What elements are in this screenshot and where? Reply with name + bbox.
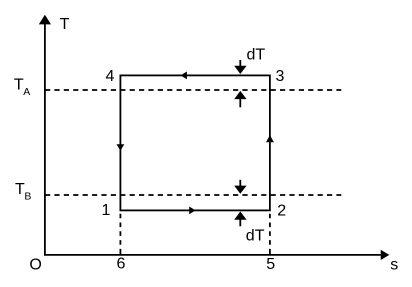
- process arrow 1 to 2 (bottom edge, rightward): [189, 207, 195, 215]
- T axis: [39, 15, 51, 256]
- process arrow 4 to 1 (left edge, downward): [117, 144, 125, 151]
- svg-text:1: 1: [102, 202, 111, 219]
- svg-text:2: 2: [277, 203, 286, 220]
- svg-text:O: O: [29, 257, 41, 274]
- svg-text:T: T: [60, 16, 70, 33]
- isotherm T_A dashed line: [45, 89, 341, 91]
- s axis: [44, 250, 389, 260]
- dashed drop line from state 1 to s=6: [119, 211, 121, 255]
- isotherm T_B dashed line: [45, 194, 341, 196]
- svg-text:dT: dT: [246, 227, 265, 244]
- dT up arrow onto bottom edge: [234, 212, 246, 227]
- svg-text:5: 5: [266, 256, 275, 273]
- dT up arrow onto T_A dashed line: [234, 91, 246, 107]
- svg-text:A: A: [23, 86, 30, 98]
- svg-text:s: s: [390, 257, 398, 274]
- cycle rectangle 1-2-3-4: [120, 75, 270, 210]
- process arrow 2 to 3 (right edge, upward): [266, 135, 274, 142]
- process arrow 3 to 4 (top edge, leftward): [181, 72, 187, 80]
- isotherm T_B label: [15, 181, 31, 202]
- dT down arrow onto top edge: [234, 60, 246, 74]
- svg-text:B: B: [24, 191, 31, 203]
- svg-text:3: 3: [276, 68, 285, 85]
- svg-text:dT: dT: [247, 47, 266, 64]
- isotherm T_A label: [14, 76, 30, 98]
- dashed drop line from state 2 to s=5: [269, 211, 271, 255]
- svg-text:6: 6: [117, 256, 126, 273]
- svg-text:4: 4: [106, 68, 115, 85]
- dT down arrow onto T_B dashed line: [234, 180, 246, 194]
